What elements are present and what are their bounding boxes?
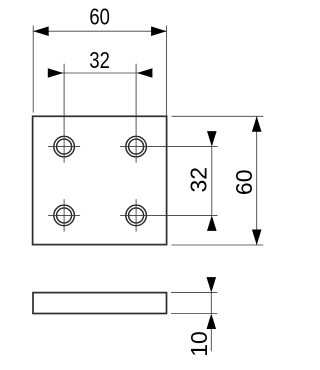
hole H3 horizontal centerline — [48, 214, 80, 216]
side view plate outline — [33, 293, 167, 314]
extension centerline right of top 32 dimension through hole H2 — [135, 64, 137, 163]
dimension line 10 between extensions — [210, 293, 212, 314]
arrowhead 32 right bottom — [207, 215, 217, 231]
hole H4 vertical centerline — [135, 199, 137, 231]
label 32 top — [89, 48, 109, 73]
svg-text:10: 10 — [186, 331, 212, 357]
svg-text:32: 32 — [89, 48, 109, 73]
label 32 right rotated — [186, 167, 212, 193]
label 10 rotated — [186, 331, 212, 357]
dimension line 32 top — [48, 72, 152, 74]
hole H4 bottom-right outer circle — [126, 205, 147, 226]
label 60 right rotated — [231, 170, 257, 196]
arrowhead 60 top left — [33, 26, 49, 36]
arrowhead 60 top right — [151, 26, 167, 36]
extension line top of 10 dimension — [171, 292, 217, 294]
plate outline (top view) — [33, 116, 167, 244]
extension centerline top row holes to right dims — [120, 146, 217, 148]
dimension line 60 right vertical — [256, 116, 258, 245]
hole H1 top-left inner circle — [57, 139, 72, 154]
arrowhead 60 right top — [252, 116, 262, 132]
hole H1 top-left outer circle — [54, 136, 75, 157]
dimension line 32 right vertical — [211, 147, 213, 216]
arrowhead 60 right bottom — [252, 230, 262, 246]
hole H2 top-right outer circle — [126, 136, 147, 157]
hole H3 bottom-left inner circle — [57, 208, 72, 223]
dimension line 60 top — [33, 30, 166, 32]
label 60 top — [89, 5, 109, 30]
extension centerline bottom row holes to right dims — [120, 214, 217, 216]
arrowhead 10 bottom — [207, 314, 217, 330]
dimension line 10 tail below arrow — [210, 329, 212, 351]
hole H3 bottom-left outer circle — [54, 205, 75, 226]
svg-text:32: 32 — [186, 167, 212, 193]
arrowhead 32 top right — [137, 68, 153, 78]
hole H3 vertical centerline — [63, 199, 65, 231]
extension centerline left of top 32 dimension through hole H1 — [63, 64, 65, 163]
extension line top of right 60 dimension — [172, 115, 264, 117]
hole H1 horizontal centerline — [48, 146, 80, 148]
arrowhead 32 right top — [207, 131, 217, 147]
hole H4 bottom-right inner circle — [129, 208, 144, 223]
svg-text:60: 60 — [231, 170, 257, 196]
arrowhead 32 top left — [48, 68, 64, 78]
hole H2 top-right inner circle — [129, 139, 144, 154]
extension line bottom of right 60 dimension — [172, 244, 264, 246]
extension line left of top 60 dimension — [32, 26, 34, 113]
arrowhead 10 top — [207, 277, 217, 293]
svg-text:60: 60 — [89, 5, 109, 30]
extension line right of top 60 dimension — [166, 26, 168, 117]
extension line bottom of 10 dimension — [171, 313, 217, 315]
